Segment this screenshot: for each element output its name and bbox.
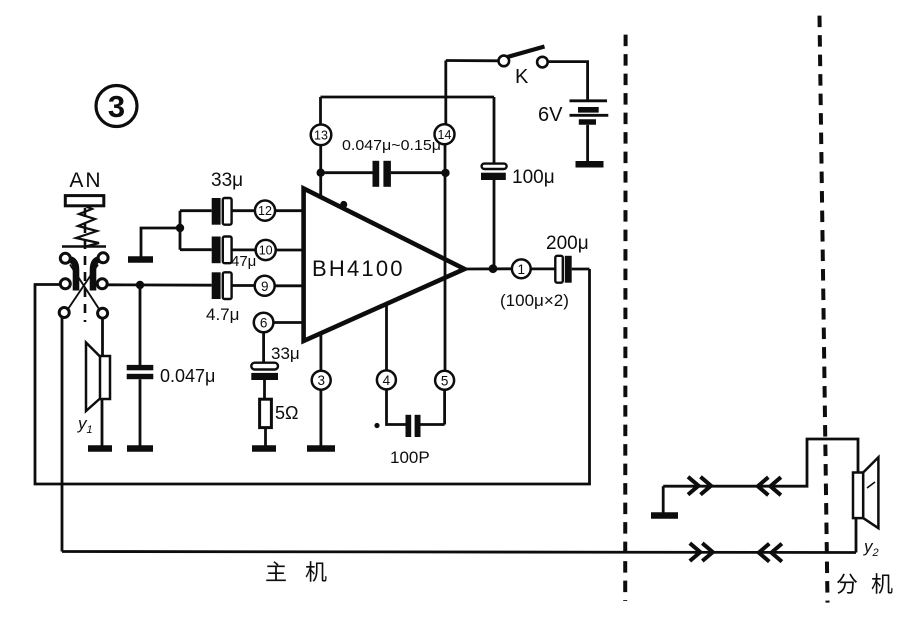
pin 4 bbox=[377, 370, 396, 389]
wire battery to ground bbox=[586, 125, 589, 161]
wire junction to ground stub bbox=[141, 228, 180, 257]
svg-text:33μ: 33μ bbox=[211, 170, 243, 191]
wire top rail corner down to 100u bbox=[493, 97, 496, 164]
svg-text:9: 9 bbox=[261, 279, 269, 294]
wire top rail (pin13 to 100u corner) bbox=[321, 96, 495, 99]
svg-text:K: K bbox=[515, 66, 529, 88]
pin 3 bbox=[312, 371, 331, 390]
wire lower-right contact to speaker Y1 bbox=[101, 318, 104, 356]
pushbutton AN spring bbox=[76, 206, 99, 247]
svg-text:200μ: 200μ bbox=[546, 233, 589, 254]
svg-text:6V: 6V bbox=[538, 104, 563, 126]
switch K lever bbox=[508, 47, 545, 58]
capacitor 200u bbox=[555, 256, 571, 283]
svg-text:AN: AN bbox=[69, 169, 102, 192]
pushbutton AN actuator bar bbox=[62, 245, 106, 248]
resistor 5ohm bbox=[260, 399, 272, 427]
connector plug lower (right chevrons) bbox=[690, 543, 713, 561]
wire output loop: middle-left contact to left rail, bottom rail, right riser bbox=[35, 269, 590, 484]
wire extension bottom line to speaker Y2 bbox=[62, 552, 856, 553]
wire pin 13 riser upper bbox=[319, 97, 322, 125]
wire capacitor to pin14 riser bbox=[391, 171, 446, 174]
wire 200u to right riser bbox=[572, 268, 590, 271]
svg-text:(100μ×2): (100μ×2) bbox=[500, 291, 569, 310]
switch AN lower contact right bbox=[98, 308, 108, 318]
node junction at 0.047u branch bbox=[136, 281, 144, 289]
svg-text:4.7μ: 4.7μ bbox=[206, 305, 239, 324]
wire 33u/47u common to junction bbox=[180, 211, 212, 250]
dashed partition line left bbox=[623, 35, 627, 601]
svg-text:47μ: 47μ bbox=[231, 253, 256, 270]
wire pin 1 to 200u bbox=[531, 267, 556, 270]
svg-text:100P: 100P bbox=[390, 448, 430, 467]
wire capacitor 0.047u to ground bbox=[139, 379, 142, 445]
capacitor 4.7u (pin 9) bbox=[212, 272, 232, 299]
wire speaker Y2 to bottom line bbox=[855, 518, 858, 552]
node junction (33u/47u ground) bbox=[176, 224, 184, 232]
wire speaker Y1 to ground bbox=[101, 399, 104, 446]
svg-text:10: 10 bbox=[259, 244, 273, 258]
connector jack lower (left chevrons) bbox=[759, 544, 782, 562]
wire lower-left contact down to extension line bbox=[61, 318, 64, 552]
capacitor C 0.047u plates bbox=[127, 365, 154, 379]
node dot on op-amp top edge bbox=[340, 201, 347, 208]
wire pin 14 down through op-amp apex to pin 5 bbox=[444, 144, 447, 371]
svg-text:4: 4 bbox=[383, 373, 391, 388]
pushbutton AN cap bbox=[65, 196, 104, 206]
ground (battery) bbox=[576, 161, 604, 168]
svg-text:5Ω: 5Ω bbox=[275, 403, 298, 423]
node junction pin13/cap bbox=[317, 169, 325, 177]
connector jack upper (left chevrons) bbox=[758, 477, 781, 495]
wire op-amp output bbox=[464, 267, 512, 270]
capacitor 33u (pin 6, vertical) bbox=[251, 363, 278, 380]
wire junction down to capacitor 0.047u bbox=[139, 285, 142, 365]
svg-text:100μ: 100μ bbox=[512, 167, 555, 188]
pin 3 wire to ground bbox=[319, 390, 322, 446]
switch AN lower contact left bbox=[59, 308, 69, 318]
capacitor 100u bbox=[481, 164, 507, 180]
svg-text:0.047μ: 0.047μ bbox=[160, 366, 215, 386]
wire upper link line bbox=[663, 439, 858, 486]
pin 4 wire to 100P bbox=[387, 389, 406, 424]
wire pin 13 riser lower bbox=[319, 145, 322, 198]
speaker Y1 coil bbox=[99, 356, 110, 399]
speaker Y1 horn bbox=[86, 343, 100, 412]
wire switch K feed bbox=[446, 59, 499, 62]
switch AN moving contact bar right bbox=[93, 260, 99, 291]
switch AN crossover wire 2 bbox=[67, 265, 98, 311]
svg-text:5: 5 bbox=[441, 373, 449, 388]
svg-text:3: 3 bbox=[108, 89, 125, 124]
ground (5ohm) bbox=[252, 445, 276, 452]
pin 9 bbox=[255, 276, 275, 296]
battery BT 6V bbox=[570, 101, 609, 122]
speaker Y2 horn hatch bbox=[867, 482, 875, 488]
op-amp U1 BH4100 bbox=[304, 189, 465, 342]
wire pin 9 to op-amp bbox=[275, 284, 303, 287]
wire pin 6 down to 33u cap bbox=[262, 332, 265, 363]
wire 100u down to output node bbox=[493, 180, 496, 269]
ground (extension link) bbox=[651, 512, 678, 519]
connector plug upper (right chevrons) bbox=[688, 477, 711, 495]
switch AN middle contact right bbox=[97, 279, 107, 289]
speaker Y2 coil bbox=[853, 473, 863, 519]
pin 13 bbox=[311, 125, 332, 146]
pin 6 bbox=[254, 313, 274, 333]
node junction pin14/cap bbox=[441, 169, 449, 177]
pin 1 bbox=[512, 259, 531, 278]
wire pin 12 to op-amp bbox=[275, 209, 302, 212]
ground (pin 3) bbox=[307, 445, 335, 452]
svg-text:3: 3 bbox=[317, 373, 325, 388]
wire 4.7u to pin 9 bbox=[232, 284, 255, 287]
wire 33u to pin 12 bbox=[232, 209, 255, 212]
wire K to battery bbox=[548, 62, 588, 100]
switch AN middle contact left bbox=[60, 279, 70, 289]
switch AN crossover wire 1 bbox=[70, 265, 100, 311]
pin 12 bbox=[255, 201, 275, 221]
wire ground stub up bbox=[662, 486, 665, 512]
switch AN moving contact bar left bbox=[70, 260, 76, 291]
wire switch to input caps (horizontal) bbox=[107, 283, 212, 286]
pushbutton AN linkage dashed bbox=[84, 208, 87, 322]
pin 10 bbox=[256, 240, 276, 260]
switch AN upper contact right bbox=[98, 253, 108, 263]
switch K contact left bbox=[499, 56, 510, 67]
pin 4 wire upper bbox=[385, 304, 388, 371]
svg-text:6: 6 bbox=[260, 316, 268, 331]
wire pin 10 to op-amp bbox=[276, 249, 303, 252]
pin 14 bbox=[435, 124, 455, 144]
wire junction to capacitor (13-14) bbox=[321, 171, 373, 174]
wire resistor to ground bbox=[264, 428, 267, 446]
wire 100P to pin 5 bbox=[421, 423, 445, 426]
svg-text:12: 12 bbox=[258, 204, 272, 218]
svg-text:主机: 主机 bbox=[265, 560, 345, 585]
ground (33u/47u) bbox=[128, 256, 153, 263]
stray dot artifact bbox=[374, 423, 379, 428]
capacitor 47u (pin 10) bbox=[212, 237, 232, 264]
pin 3 wire upper bbox=[319, 333, 322, 371]
ground (0.047u) bbox=[127, 445, 153, 452]
wire 33u cap to resistor bbox=[263, 380, 266, 399]
wire 47u to pin 10 bbox=[232, 248, 256, 251]
pin 5 bbox=[435, 371, 454, 390]
wire pin 6 to op-amp bbox=[273, 321, 302, 324]
ground (speaker Y1) bbox=[88, 445, 112, 452]
svg-text:33μ: 33μ bbox=[271, 344, 300, 363]
svg-text:13: 13 bbox=[314, 128, 328, 142]
svg-text:分机: 分机 bbox=[836, 572, 902, 597]
svg-text:0.047μ~0.15μ: 0.047μ~0.15μ bbox=[342, 137, 441, 154]
capacitor 100P plates bbox=[406, 415, 421, 437]
speaker Y2 horn bbox=[863, 457, 878, 528]
circled figure number 3 bbox=[96, 86, 137, 127]
wire pin 14 riser upper (from K switch corner) bbox=[444, 61, 447, 125]
svg-text:BH4100: BH4100 bbox=[312, 256, 405, 281]
svg-text:14: 14 bbox=[438, 128, 452, 142]
capacitor 33u (pin 12) bbox=[212, 198, 232, 225]
svg-text:1: 1 bbox=[518, 262, 526, 277]
capacitor 0.047u~0.15u plates bbox=[373, 161, 391, 187]
node output junction bbox=[489, 264, 498, 273]
switch K contact right bbox=[537, 57, 548, 68]
dashed partition line right bbox=[820, 16, 828, 603]
pin 5 wire to 100P bbox=[443, 390, 446, 425]
switch AN upper contact left bbox=[60, 253, 70, 263]
